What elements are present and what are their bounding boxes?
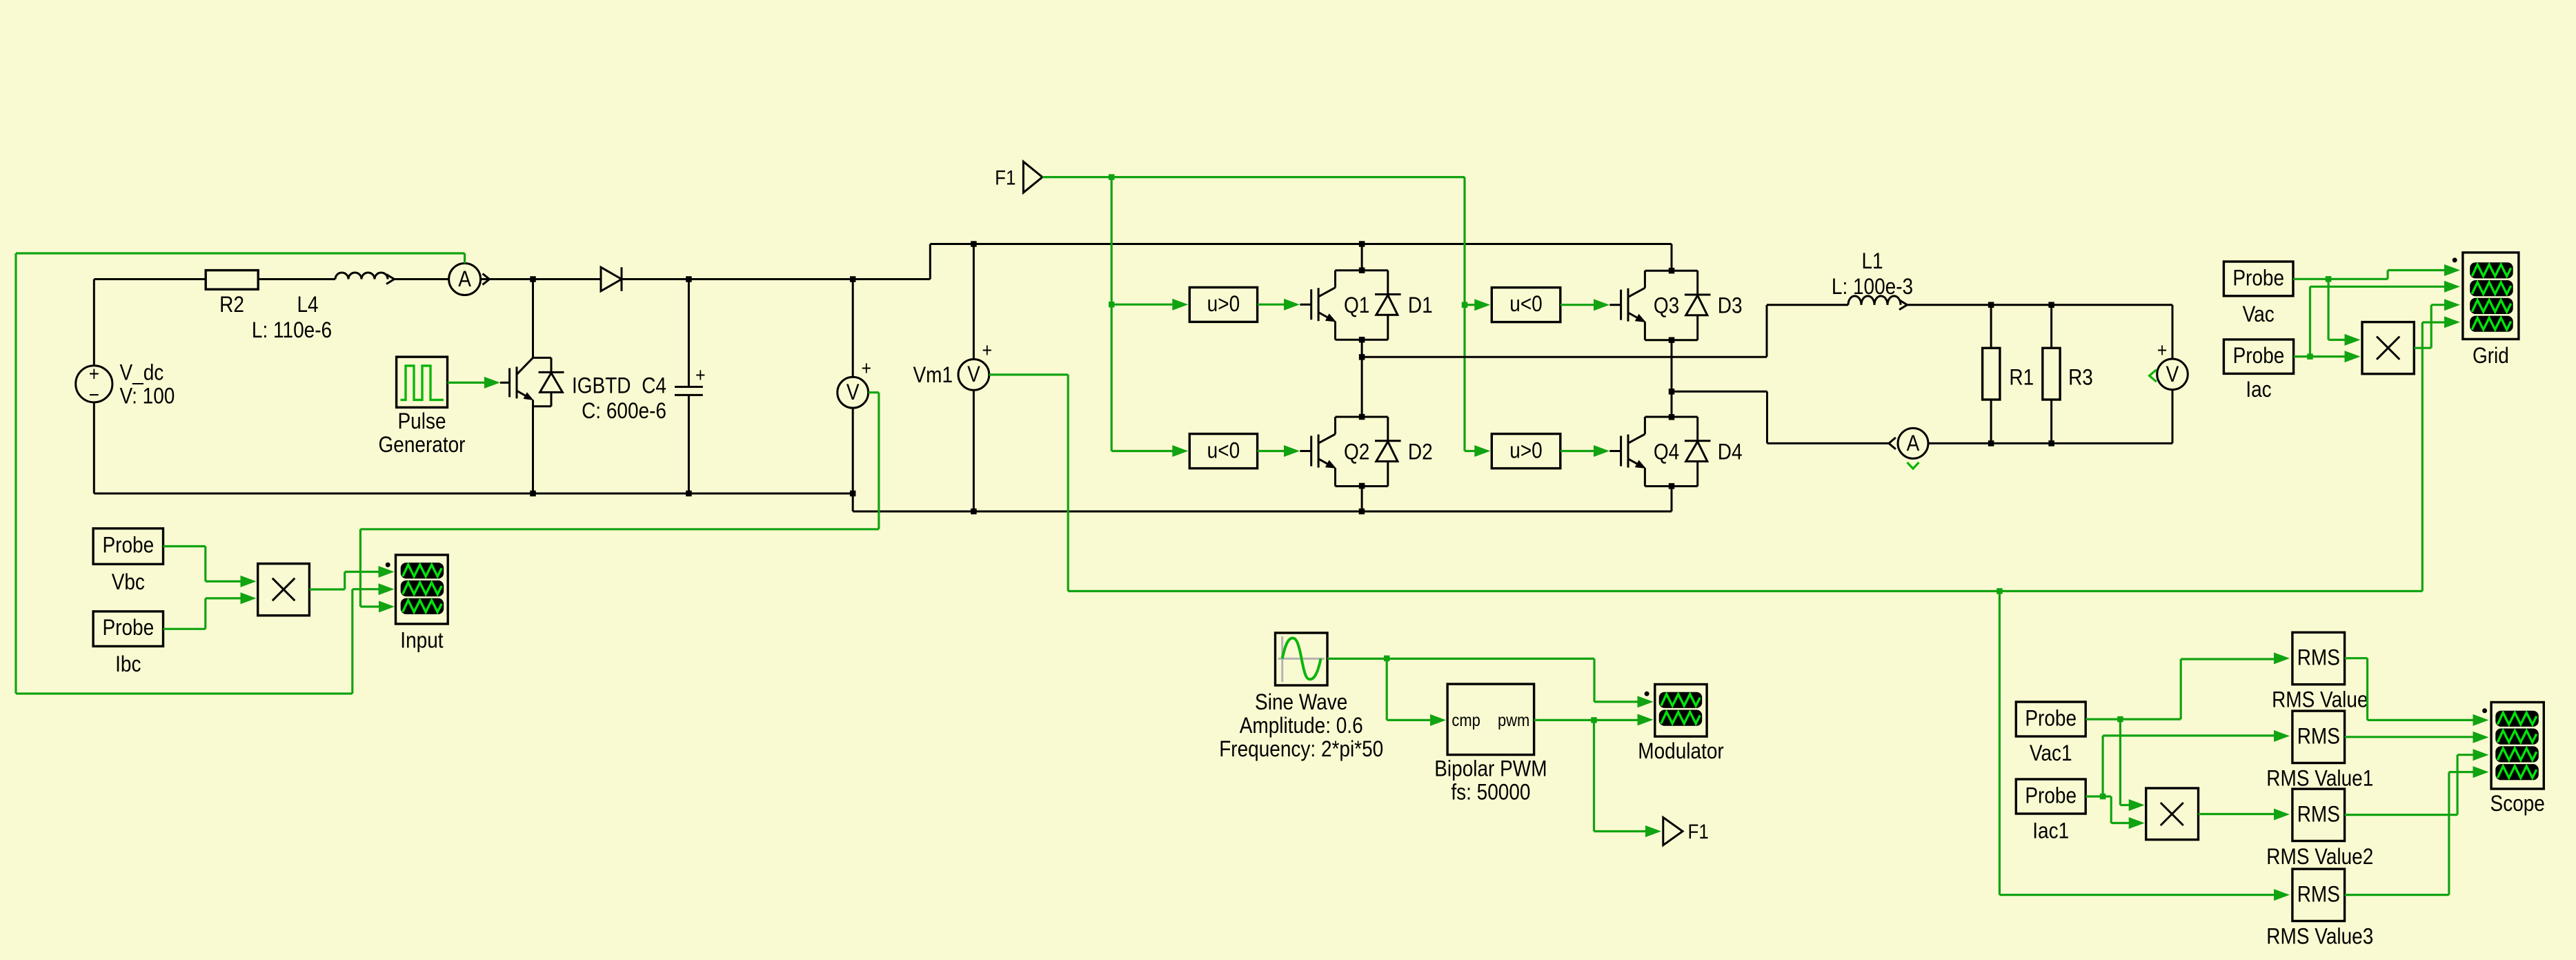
block u-lt-0 left: [1189, 434, 1257, 469]
svg-text:Vac1: Vac1: [2030, 742, 2072, 766]
svg-text:+: +: [2157, 339, 2168, 361]
wire to u-lt-0 left: [1111, 445, 1188, 457]
svg-text:A: A: [458, 267, 471, 291]
wire RMS Value2 to scope in3: [2345, 749, 2489, 814]
wire PWM to port F1: [1594, 720, 1662, 837]
node Vac split: [2326, 276, 2332, 282]
node Iac1 split: [2100, 794, 2106, 800]
svg-text:Modulator: Modulator: [1638, 739, 1723, 763]
svg-text:Input: Input: [400, 629, 444, 653]
wire node to boost diode: [533, 278, 602, 280]
node F1 left branch: [1109, 174, 1115, 180]
svg-text:RMS: RMS: [2297, 803, 2340, 827]
resistor R1: [1983, 305, 2034, 444]
svg-text:Probe: Probe: [2233, 344, 2285, 369]
wire diode to C4 node: [622, 278, 688, 280]
node Vm1 bottom: [971, 509, 977, 515]
wire Iac to grid in2: [2310, 281, 2461, 357]
svg-text:A: A: [1907, 431, 1920, 455]
wire Vac1 output: [2085, 718, 2120, 720]
block u-gt-0 left: [1189, 287, 1257, 322]
diode boost: [601, 267, 622, 291]
block RMS Value: [2272, 632, 2368, 712]
svg-text:D2: D2: [1408, 440, 1433, 464]
wire Vac1 to multiplier: [2120, 719, 2144, 811]
svg-text:u<0: u<0: [1509, 292, 1542, 316]
wire to u-lt-0 right: [1465, 299, 1490, 311]
wire R3 to Vmeter bottom: [2052, 442, 2172, 444]
voltmeter Vm1: [913, 244, 992, 512]
svg-text:L1: L1: [1861, 249, 1883, 273]
node IGBT emitter bus: [530, 491, 536, 497]
wire Iac1 to RMS Value1: [2103, 730, 2290, 796]
node u-lt-0 right branch: [1462, 302, 1468, 308]
wire Iac output: [2294, 355, 2310, 357]
wire multiplier to input scope: [309, 566, 394, 589]
wire bus step down: [853, 493, 973, 511]
multiplier grid: [2362, 322, 2414, 374]
wire R1-R3 bottom: [1991, 442, 2052, 444]
node R3 bottom: [2048, 440, 2054, 447]
node Q2 leg bottom: [1359, 509, 1365, 515]
scope Grid: [2453, 253, 2519, 369]
ammeter A1: [449, 264, 490, 295]
svg-text:RMS Value1: RMS Value1: [2266, 767, 2373, 791]
wire sine to PWM: [1387, 658, 1446, 726]
node bus corner: [850, 491, 856, 497]
wire C4 node to Vmeter node: [688, 278, 853, 280]
svg-text:Q3: Q3: [1654, 294, 1679, 318]
node IGBT collector top: [530, 276, 536, 282]
transistor Q4 with diode D4: [1609, 414, 1742, 489]
wire ammeter to R1 bottom: [1928, 442, 1991, 444]
node C4 top: [686, 276, 692, 282]
wire top step to rail: [853, 244, 973, 280]
svg-text:u>0: u>0: [1509, 439, 1542, 463]
probe Iac1: [2016, 779, 2085, 843]
wire Vm1 to RMS Value3: [1999, 591, 2290, 901]
svg-text:F1: F1: [1688, 820, 1709, 843]
voltmeter V1: [838, 280, 871, 494]
probe Iac: [2223, 340, 2293, 402]
wire V_dc top to R2: [94, 280, 206, 366]
svg-text:L4: L4: [297, 293, 318, 317]
block u-lt-0 right: [1492, 288, 1561, 322]
svg-text:Generator: Generator: [379, 433, 466, 457]
wire RMS Value3 to scope in4: [2345, 766, 2489, 895]
svg-text:RMS: RMS: [2297, 883, 2340, 907]
multiplier input: [258, 564, 310, 616]
wire u-gt-0R to Q4 gate: [1561, 445, 1609, 457]
wire L4 to ammeter: [395, 278, 449, 280]
wire PWM output: [1534, 719, 1594, 721]
svg-text:Amplitude: 0.6: Amplitude: 0.6: [1240, 714, 1363, 738]
wire A node to L1: [1362, 305, 1848, 357]
node R1 bottom: [1988, 440, 1994, 447]
svg-text:D1: D1: [1408, 293, 1433, 317]
wire ammeter to IGBT node: [481, 278, 533, 280]
svg-text:R3: R3: [2068, 366, 2093, 390]
svg-text:V: V: [846, 380, 860, 404]
wire Q2 bottom leg: [1361, 486, 1363, 511]
wire u-gt-0L to Q1 gate: [1258, 299, 1300, 311]
wire Vbc to multiplier: [164, 547, 257, 587]
inductor L1: [1832, 249, 1913, 309]
wire to u-gt-0 right: [1465, 445, 1490, 457]
wire F1 left vertical: [1111, 177, 1113, 451]
node R1 top: [1988, 302, 1994, 308]
signal source F1: [995, 161, 1042, 193]
node Q1 leg top: [1359, 241, 1365, 247]
svg-text:Iac1: Iac1: [2032, 819, 2069, 843]
svg-text:R1: R1: [2009, 366, 2034, 390]
wire rail to Q3 leg: [1362, 244, 1672, 271]
probe Vac1: [2016, 702, 2085, 766]
svg-text:u<0: u<0: [1207, 439, 1240, 463]
wire Iac1 to multiplier: [2103, 796, 2145, 829]
svg-text:Q1: Q1: [1344, 293, 1369, 317]
wire Vm1 output: [989, 375, 2000, 591]
wire Iac1 output: [2085, 795, 2103, 797]
node Vmeter1 top: [850, 276, 856, 282]
multiplier bottom: [2146, 788, 2199, 840]
svg-text:IGBTD: IGBTD: [572, 374, 631, 398]
svg-text:Vac: Vac: [2243, 302, 2275, 326]
wire pulse to gate: [448, 377, 500, 389]
scope Scope: [2482, 703, 2545, 816]
block Bipolar PWM: [1434, 684, 1547, 805]
svg-text:V_dc: V_dc: [120, 361, 164, 385]
wire PWM to modulator in2: [1594, 714, 1654, 725]
wire bottom rail: [973, 511, 1362, 513]
svg-text:RMS: RMS: [2297, 725, 2340, 749]
node B midpoint: [1669, 389, 1675, 395]
svg-text:RMS Value3: RMS Value3: [2266, 925, 2373, 949]
svg-text:F1: F1: [995, 166, 1015, 189]
transistor IGBTD boost: [500, 280, 631, 494]
probe Ibc: [93, 611, 163, 677]
svg-text:Bipolar PWM: Bipolar PWM: [1434, 757, 1547, 781]
wire rail to Q4 leg: [1362, 486, 1672, 512]
scope Modulator: [1638, 685, 1723, 764]
node Iac split: [2307, 353, 2313, 360]
probe Vbc: [93, 529, 163, 595]
wire Vm1 to grid scope: [1999, 316, 2460, 591]
wire V1 output: [360, 393, 879, 613]
sine wave source: [1219, 633, 1383, 762]
svg-text:Grid: Grid: [2473, 344, 2509, 368]
port F1 out: [1663, 817, 1709, 845]
pulse generator block: [379, 357, 466, 457]
svg-text:+: +: [695, 364, 706, 386]
block u-gt-0 right: [1492, 434, 1561, 469]
svg-text:D4: D4: [1718, 440, 1743, 464]
wire sine to modulator in1: [1387, 658, 1653, 707]
wire Vac output: [2293, 278, 2328, 280]
probe Vac: [2223, 262, 2293, 326]
svg-text:Ibc: Ibc: [115, 652, 141, 676]
node Vac1 split: [2117, 716, 2123, 723]
svg-text:V: V: [967, 362, 980, 386]
wire R2 to L4: [258, 278, 335, 280]
svg-text:RMS Value2: RMS Value2: [2266, 845, 2373, 869]
node R3 top: [2048, 302, 2054, 308]
node Vm1 top: [971, 241, 977, 247]
svg-text:Iac: Iac: [2246, 378, 2271, 402]
node A midpoint: [1359, 354, 1365, 360]
svg-text:Q2: Q2: [1344, 440, 1369, 464]
wire RMS Value1 to scope in2: [2345, 732, 2489, 743]
node C4 bottom: [686, 491, 692, 497]
svg-text:Probe: Probe: [102, 616, 154, 640]
transistor Q1 with diode D1: [1300, 267, 1432, 342]
svg-text:u>0: u>0: [1207, 292, 1240, 316]
inductor L4: [252, 273, 395, 342]
transistor Q3 with diode D3: [1609, 268, 1742, 343]
node sine split: [1384, 656, 1390, 662]
node PWM split: [1591, 717, 1597, 723]
block RMS Value1: [2266, 711, 2373, 791]
transistor Q2 with diode D2: [1300, 414, 1432, 489]
svg-text:C4: C4: [642, 374, 666, 398]
block RMS Value2: [2266, 789, 2373, 869]
wire Vac to grid in1: [2328, 264, 2460, 279]
svg-text:R2: R2: [219, 293, 244, 317]
ammeter A2 load: [1889, 428, 1928, 469]
wire R3 to Vmeter top: [2052, 305, 2172, 359]
wire Q3-Q4 midleg: [1671, 340, 1673, 418]
svg-text:C: 600e-6: C: 600e-6: [582, 399, 666, 423]
wire RMS Value to scope in1: [2345, 658, 2489, 726]
resistor R3: [2043, 305, 2093, 444]
resistor R2: [206, 271, 258, 317]
svg-text:Probe: Probe: [2025, 707, 2077, 731]
wire V_dc bottom bus: [94, 402, 853, 493]
wire R1-R3 top: [1991, 304, 2052, 306]
svg-text:pwm: pwm: [1498, 711, 1529, 730]
svg-text:Vbc: Vbc: [112, 570, 145, 594]
scope Input: [386, 555, 448, 653]
svg-text:V: 100: V: 100: [120, 384, 175, 409]
wire u-lt-0L to Q2 gate: [1258, 445, 1300, 457]
svg-text:Sine Wave: Sine Wave: [1255, 691, 1347, 715]
wire Ibc to multiplier: [164, 592, 257, 629]
voltage source V_dc: [76, 361, 175, 409]
capacitor C4: [582, 280, 706, 494]
svg-text:fs: 50000: fs: 50000: [1451, 781, 1530, 805]
svg-text:Vm1: Vm1: [913, 363, 953, 387]
wire multiplier to grid in3: [2414, 299, 2460, 348]
wire to u-gt-0 left: [1111, 299, 1188, 311]
svg-text:Probe: Probe: [102, 533, 154, 558]
wire Q1 top leg: [1361, 244, 1363, 271]
wire sine output: [1327, 658, 1387, 660]
wire F1 right vertical: [1463, 177, 1465, 451]
svg-text:Probe: Probe: [2025, 784, 2077, 808]
svg-text:Frequency: 2*pi*50: Frequency: 2*pi*50: [1219, 738, 1383, 762]
svg-text:+: +: [89, 362, 99, 385]
svg-text:L: 100e-3: L: 100e-3: [1832, 275, 1913, 299]
wire B node to ammeter: [1672, 391, 1889, 443]
svg-text:L: 110e-6: L: 110e-6: [252, 318, 332, 342]
svg-text:Probe: Probe: [2232, 266, 2284, 291]
wire Iac to multiplier: [2310, 351, 2361, 362]
node u-gt-0 left branch: [1109, 302, 1115, 308]
wire Vac1 to RMS Value: [2120, 652, 2290, 719]
svg-text:D3: D3: [1718, 294, 1743, 318]
wire u-lt-0R to Q3 gate: [1561, 299, 1609, 311]
svg-text:RMS: RMS: [2297, 646, 2340, 670]
svg-text:Pulse: Pulse: [397, 409, 446, 433]
svg-text:Scope: Scope: [2490, 792, 2545, 816]
wire ammeter A1 output: [16, 253, 465, 694]
svg-text:+: +: [982, 339, 993, 361]
wire L1 to R1 node: [1908, 304, 1992, 306]
node Vm1 wire split: [1997, 588, 2003, 594]
block RMS Value3: [2266, 869, 2373, 949]
svg-text:V: V: [2166, 362, 2179, 386]
wire Vac to multiplier: [2328, 279, 2360, 346]
svg-text:Q4: Q4: [1654, 440, 1679, 464]
svg-text:RMS Value: RMS Value: [2272, 688, 2368, 712]
wire dc+ rail: [973, 243, 1362, 245]
voltmeter V load: [2150, 339, 2188, 443]
svg-text:+: +: [862, 357, 872, 379]
wire F1 horizontal: [1042, 176, 1465, 178]
wire multiplier to RMS Value2: [2199, 809, 2290, 821]
svg-text:cmp: cmp: [1452, 711, 1480, 730]
wire Q1-Q2 midleg: [1361, 340, 1363, 417]
